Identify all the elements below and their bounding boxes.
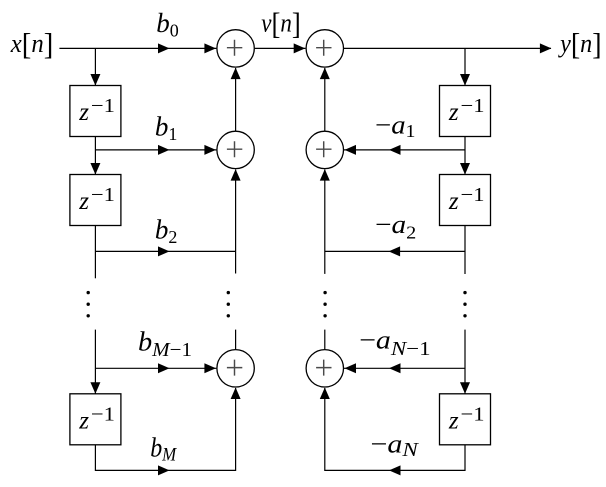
arrowhead into adder B0 bottom (320, 68, 330, 80)
arrowhead mid -a2 row (389, 246, 401, 256)
arrowhead mid b2 row (158, 246, 170, 256)
adder A1 (217, 131, 254, 168)
delay Z2 (70, 175, 121, 226)
svg-text:x[n]: x[n] (10, 28, 53, 62)
wire adder column B resume to adder B3 (324, 330, 326, 350)
dots right column (463, 291, 466, 294)
arrowhead into delay Z6 top (460, 382, 470, 394)
wire -a1 row from right column to adder B1 (344, 149, 465, 151)
svg-text:−1: −1 (91, 403, 115, 425)
arrowhead mid -aN row (389, 465, 401, 475)
wire b2 row to adder column A (95, 250, 235, 252)
arrowhead into adder A1 bottom (231, 169, 241, 181)
arrowhead into adder B3 right (345, 363, 357, 373)
svg-text:z: z (448, 407, 459, 434)
adder A3 (217, 350, 254, 387)
delay Z3 (70, 394, 121, 445)
arrowhead into delay Z2 top (90, 163, 100, 175)
svg-text:−1: −1 (91, 184, 115, 206)
wire adder A0 to adder B0 (v[n] node) (255, 47, 306, 49)
wire adder A1 to adder A0 (235, 68, 237, 131)
delay Z4 (440, 86, 491, 137)
svg-text:y[n]: y[n] (557, 28, 601, 62)
arrowhead into delay Z4 top (460, 74, 470, 86)
arrowhead into delay Z3 top (90, 382, 100, 394)
wire adder B1 to adder B0 (324, 68, 326, 131)
delay Z6 (440, 394, 491, 445)
arrowhead into adder A3 left (204, 363, 216, 373)
adder B1 (306, 131, 343, 168)
arrowhead into adder A0 bottom (231, 68, 241, 80)
arrowhead into adder A1 left (204, 145, 216, 155)
arrowhead into adder A3 bottom (231, 388, 241, 400)
wire bM-1 row to adder A3 (95, 367, 216, 369)
svg-text:−1: −1 (461, 184, 485, 206)
svg-text:z: z (78, 99, 89, 126)
wire right column drop to delay Z4 (464, 48, 466, 85)
arrowhead into adder B0 left (294, 43, 306, 53)
svg-text:−1: −1 (461, 95, 485, 117)
dots left column (87, 291, 90, 294)
wire delay Z3 bottom bM row up to adder A3 (95, 388, 235, 470)
wire x[n] to adder A0 (59, 47, 216, 49)
arrowhead into delay Z1 top (90, 74, 100, 86)
arrowhead mid -a1 row (389, 145, 401, 155)
wire right column resume to delay Z6 (464, 330, 466, 394)
wire adder column A up to adder A1 (235, 170, 237, 274)
wire adder column A resume to adder A3 (235, 330, 237, 350)
arrowhead into delay Z5 top (460, 163, 470, 175)
arrowhead into adder A0 left (204, 43, 216, 53)
arrowhead mid -aN-1 row (389, 363, 401, 373)
arrowhead into adder B3 bottom (320, 388, 330, 400)
dots adder column B (323, 291, 326, 294)
wire delay Z4 to delay Z5 (464, 137, 466, 175)
dots adder column A (227, 291, 230, 294)
arrowhead mid bM-1 row (158, 363, 170, 373)
wire delay Z6 bottom -aN row up to adder B3 (325, 388, 465, 470)
wire delay Z2 down to b2 junction (94, 226, 96, 279)
wire delay Z5 down to -a2 junction (464, 226, 466, 275)
delay Z1 (70, 86, 121, 137)
wire adder B0 to y[n] output (344, 47, 551, 49)
svg-text:z: z (448, 188, 459, 215)
adder B0 (306, 30, 343, 67)
wire adder column B up to adder B1 (324, 170, 326, 274)
wire left column resume to delay Z3 (94, 330, 96, 394)
svg-text:v[n]: v[n] (261, 7, 301, 41)
arrowhead mid bM row (158, 465, 170, 475)
arrowhead mid b0 row (158, 43, 170, 53)
arrowhead into adder B1 bottom (320, 169, 330, 181)
arrowhead mid b1 row (158, 145, 170, 155)
wire delay Z1 to delay Z2 (94, 137, 96, 175)
svg-text:−1: −1 (461, 403, 485, 425)
wire b1 row to adder A1 (95, 149, 216, 151)
svg-text:−1: −1 (91, 95, 115, 117)
svg-text:z: z (448, 99, 459, 126)
svg-text:z: z (78, 188, 89, 215)
arrowhead into adder B1 right (345, 145, 357, 155)
svg-text:z: z (78, 407, 89, 434)
adder B3 (306, 350, 343, 387)
wire left column drop to delay Z1 (94, 48, 96, 85)
adder A0 (217, 30, 254, 67)
wire -a2 row from right column to adder column B (325, 250, 465, 252)
wire -aN-1 row from right column to adder B3 (344, 367, 465, 369)
delay Z5 (440, 175, 491, 226)
arrowhead into y[n] output (540, 43, 552, 53)
